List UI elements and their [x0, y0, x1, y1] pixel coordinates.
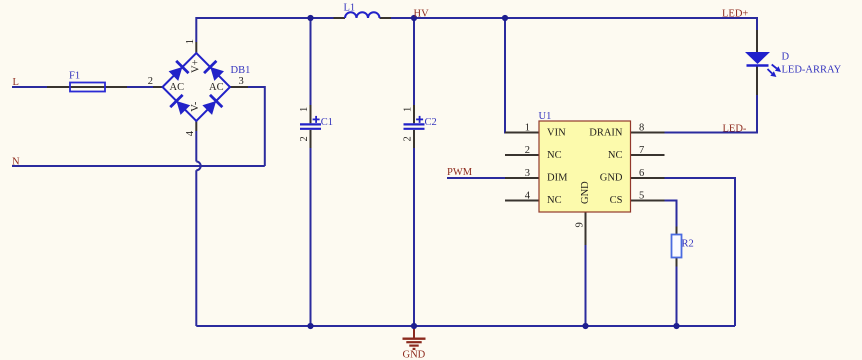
- pin 2 stub: [505, 154, 539, 156]
- svg-text:9: 9: [574, 222, 585, 227]
- svg-text:2: 2: [148, 76, 153, 87]
- op-amp U1 (LED driver IC): [505, 111, 665, 245]
- diode V- ->AC (bottom-right edge): [201, 95, 222, 116]
- svg-text:DRAIN: DRAIN: [589, 128, 623, 139]
- capacitor C2: [403, 105, 437, 148]
- node: VIN branch junction: [502, 15, 508, 21]
- pin 5 stub: [631, 200, 665, 202]
- svg-text:GND: GND: [600, 173, 623, 184]
- svg-text:DB1: DB1: [231, 65, 251, 76]
- svg-text:C1: C1: [321, 117, 333, 128]
- svg-text:AC: AC: [170, 82, 185, 93]
- diode AC->V+ (top-left edge): [167, 61, 188, 82]
- wire: C2 branch bottom: [413, 148, 415, 326]
- resistor R2: [672, 227, 694, 267]
- fuse F1: [47, 70, 127, 91]
- wire: top rail left (bridge V+ to C1 node): [196, 18, 310, 42]
- svg-text:N: N: [12, 157, 20, 168]
- svg-text:LED-ARRAY: LED-ARRAY: [782, 65, 842, 76]
- svg-text:NC: NC: [547, 150, 562, 161]
- wire: top rail HV node to LED+ corner and down to LED anode: [414, 18, 757, 30]
- svg-text:D: D: [782, 52, 790, 63]
- bridge rectifier DB1: [148, 39, 251, 136]
- wire: U1 CS (pin 5) to R2 top: [665, 201, 677, 227]
- pin 3 stub: [230, 86, 248, 88]
- pin 4 stub: [505, 200, 539, 202]
- wire: C1 branch bottom: [310, 148, 312, 326]
- wire: N input: [12, 165, 265, 167]
- emission arrows: [772, 65, 777, 69]
- wire: fuse to bridge pin 2: [127, 86, 153, 88]
- diode V- ->AC (bottom-left edge): [170, 95, 191, 116]
- svg-text:CS: CS: [610, 195, 623, 206]
- svg-text:2: 2: [525, 145, 530, 156]
- wire: PWM to U1 DIM: [447, 177, 505, 179]
- diode AC->V+ (top-right edge): [204, 61, 225, 82]
- capacitor C1: [299, 105, 333, 148]
- wire: bridge V- down to ground rail with hop over N: [195, 131, 197, 162]
- svg-text:7: 7: [639, 145, 644, 156]
- svg-text:R2: R2: [682, 239, 694, 250]
- node: R2 ground junction: [673, 323, 679, 329]
- diamond body: [163, 53, 231, 121]
- svg-text:GND: GND: [403, 350, 426, 360]
- wire: bridge pin 3 loop to N: [248, 87, 265, 166]
- body: [539, 121, 631, 212]
- svg-text:LED+: LED+: [722, 9, 748, 20]
- node: GND junction: [411, 323, 417, 329]
- pin 2 stub: [153, 86, 163, 88]
- wire: U1 VIN branch from top rail: [505, 18, 539, 133]
- svg-text:1: 1: [525, 123, 530, 134]
- pin 7 stub: [631, 154, 665, 156]
- wire: top rail C1 node to L1: [311, 17, 334, 19]
- pin 3 stub: [505, 177, 539, 179]
- wire: bottom ground rail: [196, 325, 735, 327]
- wire: C2 branch top: [413, 18, 415, 105]
- svg-text:1: 1: [185, 39, 196, 44]
- svg-text:4: 4: [525, 191, 531, 202]
- wire: L input to fuse: [12, 86, 47, 88]
- svg-text:HV: HV: [414, 8, 430, 19]
- node: C1 top junction: [307, 15, 313, 21]
- pin 8 stub: [631, 132, 665, 134]
- svg-text:V+: V+: [191, 59, 202, 73]
- svg-text:C2: C2: [425, 117, 437, 128]
- svg-text:8: 8: [639, 123, 644, 134]
- ground symbol: [403, 326, 426, 360]
- svg-text:1: 1: [403, 107, 414, 112]
- svg-text:3: 3: [525, 168, 530, 179]
- svg-text:L1: L1: [344, 3, 356, 14]
- svg-text:V-: V-: [190, 101, 201, 112]
- node: pin9 ground junction: [582, 323, 588, 329]
- svg-text:2: 2: [299, 136, 310, 141]
- svg-text:NC: NC: [547, 195, 562, 206]
- wire: C1 branch top: [310, 18, 312, 105]
- pin 6 stub: [631, 177, 665, 179]
- svg-text:PWM: PWM: [447, 167, 473, 178]
- pin 4 stub: [195, 121, 197, 131]
- node: C1 bottom junction: [307, 323, 313, 329]
- wire: U1 DRAIN (pin 8) to LED cathode: [665, 95, 758, 133]
- svg-text:F1: F1: [69, 70, 80, 81]
- svg-text:GND: GND: [580, 181, 591, 204]
- svg-text:VIN: VIN: [547, 128, 566, 139]
- inductor L1: [334, 3, 392, 19]
- wire: U1 pin 9 to ground rail: [585, 245, 587, 326]
- pin 9 stub: [585, 212, 587, 245]
- svg-text:LED-: LED-: [723, 123, 747, 134]
- svg-text:U1: U1: [539, 111, 552, 122]
- wire: U1 GND (pin 6) to ground rail: [665, 178, 736, 326]
- svg-text:1: 1: [299, 107, 310, 112]
- wire: R2 bottom to ground rail: [676, 267, 678, 327]
- svg-text:L: L: [13, 77, 19, 88]
- pin 1 stub: [505, 132, 539, 134]
- svg-text:2: 2: [403, 136, 414, 141]
- svg-text:DIM: DIM: [547, 173, 568, 184]
- LED D (LED-ARRAY): [745, 30, 842, 95]
- pin 1 stub: [195, 42, 197, 53]
- svg-text:6: 6: [639, 168, 644, 179]
- svg-text:5: 5: [639, 191, 644, 202]
- svg-text:NC: NC: [608, 150, 623, 161]
- svg-text:4: 4: [185, 130, 196, 136]
- node: HV junction: [411, 15, 417, 21]
- wire: top rail L1 to HV node: [391, 17, 414, 19]
- svg-text:3: 3: [239, 76, 244, 87]
- svg-text:AC: AC: [209, 82, 224, 93]
